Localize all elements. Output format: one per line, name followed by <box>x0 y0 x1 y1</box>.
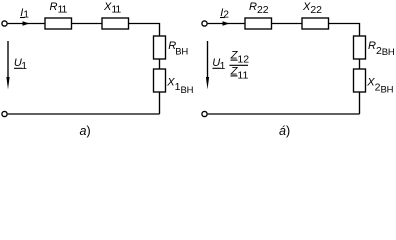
underline of Z11 <box>231 75 238 77</box>
svg-text:Z12: Z12 <box>230 50 250 66</box>
resistor X11 <box>102 18 129 29</box>
underline of Z12 <box>231 59 238 61</box>
wire: X22 to top-right corner and down <box>329 24 360 37</box>
svg-text:I1: I1 <box>20 7 29 21</box>
wire: R22 to X22 <box>272 23 303 25</box>
svg-text:R11: R11 <box>50 1 68 16</box>
voltage arrowhead U1 (left) <box>6 77 9 90</box>
wire: Rвн to X1вн <box>159 59 161 69</box>
svg-text:X11: X11 <box>103 1 121 16</box>
wire: top terminal to R11 <box>8 23 45 25</box>
wire: X2вн down to bottom rail <box>359 92 361 114</box>
svg-text:X1ВН: X1ВН <box>166 76 193 96</box>
terminal (right circuit, top input) <box>202 21 207 26</box>
resistor R11 <box>45 18 72 29</box>
resistor X1вн <box>154 69 166 92</box>
svg-text:R2ВН: R2ВН <box>368 40 395 58</box>
svg-text:U1: U1 <box>212 57 225 72</box>
wire: R11 to X11 <box>72 23 103 25</box>
wire: bottom rail (right circuit) <box>208 113 360 115</box>
underline of U1 (right) <box>212 67 220 69</box>
fraction bar Z12/Z11 <box>229 64 248 66</box>
underline of U1 (left) <box>14 67 22 69</box>
wire: bottom rail (left circuit) <box>8 113 160 115</box>
terminal (left circuit, top input) <box>2 21 7 26</box>
svg-text:I2: I2 <box>220 7 229 21</box>
voltage arrowhead (right) <box>206 77 209 90</box>
voltage arrow U1 (left circuit) <box>7 41 9 80</box>
svg-text:R22: R22 <box>249 1 269 16</box>
current arrowhead I1 <box>23 21 30 26</box>
resistor R22 <box>245 18 272 29</box>
wire: X11 to top-right corner and down <box>129 24 160 37</box>
svg-text:Z11: Z11 <box>230 66 249 82</box>
resistor X2вн <box>354 69 366 92</box>
svg-text:U1: U1 <box>14 57 27 72</box>
resistor R2вн <box>354 36 366 59</box>
wire: X1вн down to bottom rail <box>159 92 161 114</box>
svg-text:RВН: RВН <box>168 40 188 58</box>
svg-text:X2ВН: X2ВН <box>366 76 393 95</box>
svg-text:X22: X22 <box>302 1 322 16</box>
wire: R2вн to X2вн <box>359 59 361 69</box>
wire: top terminal to R22 <box>208 23 245 25</box>
terminal (left circuit, bottom input) <box>2 111 7 116</box>
current arrowhead I2 <box>223 21 230 26</box>
svg-text:a): a) <box>80 124 91 138</box>
voltage arrow U1*Z12/Z11 (right circuit) <box>207 41 209 80</box>
resistor Rвн <box>154 36 166 59</box>
svg-text:á): á) <box>279 124 290 138</box>
underline of I1 <box>20 17 25 19</box>
underline of I2 <box>220 17 225 19</box>
resistor X22 <box>302 18 329 29</box>
terminal (right circuit, bottom input) <box>202 111 207 116</box>
